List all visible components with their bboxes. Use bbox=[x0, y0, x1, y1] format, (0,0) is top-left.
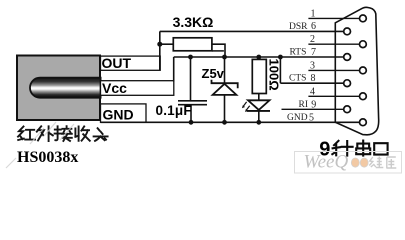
wire: DSR line to pin6 bbox=[160, 30, 344, 32]
wire: stray segment under resistor right lead bbox=[212, 50, 224, 52]
svg-text:HS0038x: HS0038x bbox=[17, 149, 78, 166]
wire: LED bottom lead bbox=[258, 111, 260, 122]
收 bbox=[75, 126, 89, 140]
svg-text:5: 5 bbox=[309, 112, 314, 123]
IR receiver body bbox=[17, 56, 100, 121]
zener diode Z5v bbox=[212, 80, 238, 89]
svg-text:3.3KΩ: 3.3KΩ bbox=[173, 14, 214, 30]
LED arrow 1 bbox=[243, 102, 246, 106]
svg-text:GND: GND bbox=[103, 107, 134, 123]
wire: pin4 stub bbox=[308, 95, 359, 97]
svg-text:2: 2 bbox=[310, 34, 315, 45]
node: junction OUT/DSR/resistor bbox=[157, 42, 162, 47]
pin 2 bbox=[360, 41, 367, 48]
DB9 shell bbox=[335, 7, 378, 135]
wire: capacitor bottom lead bbox=[190, 105, 192, 123]
针 bbox=[332, 141, 352, 156]
pin 5 bbox=[360, 119, 367, 126]
pin 4 bbox=[360, 93, 367, 100]
node: LED-ground junction bbox=[256, 120, 261, 125]
node: rail-capacitor junction bbox=[188, 55, 193, 60]
node: rail-resistor2 junction bbox=[256, 55, 261, 60]
wire: pin2 stub bbox=[308, 43, 359, 45]
pin 1 bbox=[360, 15, 367, 22]
node: capacitor-ground junction bbox=[189, 120, 194, 125]
svg-text:Z5v: Z5v bbox=[202, 66, 225, 81]
node: rail-CTS junction bbox=[278, 55, 283, 60]
GND pin label box bbox=[101, 104, 147, 122]
svg-text:100Ω: 100Ω bbox=[267, 59, 282, 91]
wire: resistor2 to LED lead bbox=[258, 94, 260, 101]
pin 9 bbox=[344, 106, 351, 113]
svg-text:GND: GND bbox=[287, 113, 308, 123]
svg-text:RTS: RTS bbox=[290, 48, 307, 58]
wire: Vcc rail to RTS pin7 bbox=[174, 56, 344, 58]
wire: resistor left lead bbox=[160, 43, 174, 45]
IR receiver lens barrel bbox=[30, 78, 101, 98]
LED arrow 2 bbox=[247, 106, 250, 110]
svg-text:7: 7 bbox=[311, 47, 316, 58]
wire: RI stub bbox=[282, 108, 345, 110]
pin 6 bbox=[344, 28, 351, 35]
wire: Vcc drop to Vcc pin bbox=[173, 57, 175, 82]
svg-text:Vcc: Vcc bbox=[102, 80, 127, 96]
Vcc pin label box bbox=[101, 81, 174, 96]
svg-text:CTS: CTS bbox=[289, 74, 306, 84]
svg-text:1: 1 bbox=[311, 9, 316, 20]
LED D2 bbox=[248, 100, 270, 110]
svg-text:6: 6 bbox=[311, 21, 316, 32]
svg-text:4: 4 bbox=[310, 86, 315, 97]
svg-text:DSR: DSR bbox=[289, 22, 308, 32]
wire: zener bottom lead bbox=[224, 95, 226, 122]
wire: CTS drop bbox=[279, 57, 281, 83]
wire: resistor2 top lead bbox=[258, 57, 260, 59]
pin 8 bbox=[344, 80, 351, 87]
wire: zener top lead bbox=[224, 57, 226, 83]
接 bbox=[55, 126, 72, 141]
串 bbox=[356, 141, 370, 156]
svg-text:OUT: OUT bbox=[102, 55, 132, 71]
watermark 维库 bbox=[369, 157, 396, 169]
capacitor C1 0.1uF plates bbox=[178, 100, 207, 102]
svg-text:0.1μF: 0.1μF bbox=[156, 103, 192, 118]
红 bbox=[18, 127, 35, 141]
resistor R2 100ohm bbox=[252, 59, 266, 93]
wire: OUT vertical riser bbox=[159, 31, 161, 70]
wire: resistor right lead bbox=[212, 44, 225, 57]
node: rail-zener junction bbox=[222, 55, 227, 60]
svg-text:8: 8 bbox=[311, 73, 316, 84]
node: zener-ground junction bbox=[222, 120, 227, 125]
pin 3 bbox=[360, 67, 367, 74]
外 bbox=[37, 126, 53, 141]
口 bbox=[374, 143, 387, 154]
OUT pin label box bbox=[101, 56, 161, 70]
wire: CTS line to pin8 bbox=[280, 82, 344, 84]
svg-text:9: 9 bbox=[311, 99, 316, 110]
signal labels bbox=[287, 22, 308, 123]
svg-text:3: 3 bbox=[310, 60, 315, 71]
头 bbox=[94, 128, 108, 141]
label: IR receiver (红外接收头) bbox=[18, 126, 108, 141]
wire: pin1 stub bbox=[308, 17, 359, 19]
svg-text:RI: RI bbox=[299, 100, 309, 110]
wire: capacitor top lead bbox=[190, 57, 192, 101]
label: 9-pin serial port (9针串口) bbox=[332, 141, 387, 156]
faint diagonal watermark over receiver label bbox=[6, 122, 74, 168]
watermark badge box bbox=[295, 152, 402, 174]
svg-text:WeeQ: WeeQ bbox=[304, 152, 349, 173]
resistor R1 3.3K bbox=[173, 38, 212, 51]
wire: pin3 stub bbox=[308, 69, 359, 71]
wire: ground bus bbox=[101, 121, 360, 123]
pin numbers bbox=[309, 9, 316, 124]
pin 7 bbox=[344, 54, 351, 61]
